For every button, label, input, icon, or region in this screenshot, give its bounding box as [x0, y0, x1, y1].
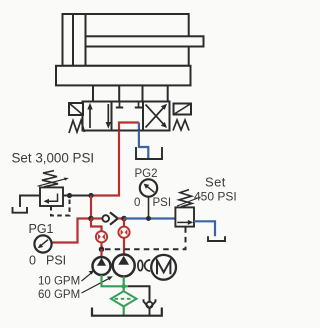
- valve DCV body: [83, 102, 170, 131]
- check valve CV1: [91, 217, 102, 219]
- cylinder barrel: [63, 14, 189, 66]
- wire green suction P1: [102, 275, 129, 286]
- wire red branch down: [90, 196, 92, 219]
- DCV center blocked port A: [119, 102, 121, 107]
- wire green suction P2: [123, 277, 125, 292]
- pipe leg A: [93, 86, 119, 102]
- tank T2: [208, 236, 225, 241]
- wire blue main: [124, 217, 175, 219]
- flow meter FM1: [96, 231, 107, 242]
- wire red to flow meter right: [123, 219, 125, 255]
- svg-text:PSI: PSI: [46, 254, 66, 268]
- node check valve left: [88, 216, 94, 222]
- svg-text:Set 3,000 PSI: Set 3,000 PSI: [12, 151, 95, 166]
- spring RV1: [42, 171, 58, 187]
- tank T3 main: [92, 308, 162, 316]
- svg-text:60 GPM: 60 GPM: [38, 289, 80, 301]
- svg-text:450 PSI: 450 PSI: [194, 190, 237, 204]
- filter F1: [111, 291, 137, 306]
- relief valve RV1: [40, 187, 63, 206]
- svg-text:10 GPM: 10 GPM: [38, 275, 80, 287]
- valve bottom edge restroke: [83, 130, 170, 132]
- wire red pump P1 stub: [100, 249, 102, 258]
- svg-text:PSI: PSI: [153, 197, 172, 209]
- svg-text:PG2: PG2: [135, 168, 158, 180]
- node green junction: [122, 284, 126, 288]
- DCV right-position crossed arrow 2: [146, 105, 166, 126]
- wire blue RV2 to tank: [194, 221, 215, 236]
- piston: [72, 14, 74, 66]
- rod: [86, 36, 204, 46]
- solenoid left: [69, 103, 83, 115]
- spring left: [69, 121, 85, 134]
- DCV left-position up arrow: [89, 106, 91, 128]
- pump P2: [113, 255, 135, 277]
- node pilot tap: [67, 193, 72, 198]
- wire red to PG1: [52, 219, 91, 243]
- svg-text:PG1: PG1: [29, 222, 54, 236]
- wire relief to junction: [63, 195, 91, 197]
- motor M1: [151, 255, 176, 280]
- tank T1: [13, 207, 28, 213]
- arrow RV1 adjustable: [38, 179, 67, 187]
- coupling: [138, 260, 143, 270]
- wire red P down from valve: [91, 131, 119, 196]
- node PG2 stem: [146, 216, 151, 221]
- wire RV1 to tank: [20, 196, 40, 208]
- spring right: [173, 120, 189, 131]
- svg-text:Set: Set: [205, 175, 226, 190]
- check valve CV2: [147, 302, 153, 308]
- DCV center blocked port B: [138, 102, 140, 107]
- leader 10 GPM: [82, 273, 92, 281]
- svg-text:0: 0: [134, 197, 140, 209]
- svg-text:0: 0: [29, 254, 36, 268]
- wire blue T to tank: [139, 131, 148, 159]
- pump P1: [93, 257, 111, 275]
- spring RV2: [179, 190, 192, 207]
- solenoid right: [174, 104, 192, 115]
- wire blue T inside valve center: [138, 123, 140, 131]
- wire red P inside valve center: [119, 123, 139, 131]
- pilot RV1 dashed: [51, 199, 70, 216]
- pilot dashed main: [105, 227, 186, 249]
- tank under valve: [136, 147, 162, 159]
- relief valve RV2: [175, 207, 194, 226]
- wire red to flow meter left: [91, 219, 102, 251]
- gauge PG1: [34, 235, 51, 252]
- node red branch: [88, 193, 93, 198]
- gauge PG2: [148, 197, 150, 219]
- node pump P1: [99, 247, 105, 253]
- DCV right-position crossed arrow 1: [146, 106, 166, 128]
- leader 60 GPM: [82, 278, 110, 293]
- wire green filter to tank: [123, 306, 125, 315]
- wire return line: [128, 286, 150, 301]
- pipe leg B: [143, 86, 168, 102]
- arrow RV2 adjustable: [177, 197, 201, 206]
- DCV left-position down arrow: [107, 104, 109, 123]
- flow meter FM2: [118, 227, 129, 238]
- node blue junction: [121, 216, 127, 222]
- manifold plate: [56, 66, 191, 86]
